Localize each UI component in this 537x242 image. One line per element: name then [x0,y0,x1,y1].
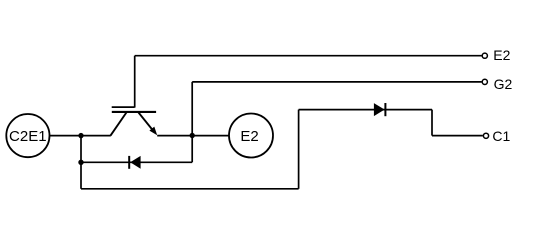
wire: bottom horizontal wire [81,188,299,190]
diode D2 (anti-parallel, pointing left): triangle [130,156,140,169]
svg-text:E2: E2 [493,47,510,63]
label E2 (pin) [493,47,510,63]
node C junction dot (diode D2 anode-side tap) [78,160,83,165]
diode D1 cathode bar [384,103,386,116]
svg-text:C1: C1 [492,128,510,144]
label G2 (pin) [494,76,513,92]
terminal E2 pin circle [482,53,487,58]
label C1 (pin) [492,128,510,144]
wire: diode D2 horizontal wire [81,161,192,163]
wire: main horizontal wire from C2E1 circle to IGBT collector foot [49,135,110,137]
terminal C1 pin circle [483,133,488,138]
wire: main horizontal wire from IGBT emitter arrow to E2 circle [157,135,229,137]
transistor Q2 (IGBT): emitter arrowhead [149,127,157,136]
diode D1 (pointing right): triangle [374,103,385,116]
svg-text:E2: E2 [240,128,258,145]
wire: diode D1 horizontal wire [299,109,432,111]
label E2 (power terminal) [240,128,258,145]
terminal G2 pin circle [482,79,487,84]
transistor Q2 (IGBT): main body bar [112,111,156,113]
wire: G2 horizontal wire from vertical riser to terminal G2 [192,81,481,83]
transistor Q2 (IGBT): gate bar [112,106,135,108]
label C2E1 [9,128,47,145]
transistor Q2 (IGBT): collector diagonal [111,113,127,136]
node B junction dot (emitter node) [190,133,195,138]
terminal C2E1 circle [6,114,49,157]
wire: top horizontal wire to terminal E2 [135,55,482,57]
wire: gate lead from top wire down to gate bar [134,56,136,108]
node A junction dot [78,133,83,138]
svg-text:C2E1: C2E1 [9,128,47,145]
transistor Q2 (IGBT): emitter diagonal [139,113,154,132]
terminal E2 (power) circle [229,114,273,158]
wire: vertical drop x=432 from D1 wire down to C1 level [431,110,433,136]
svg-text:G2: G2 [494,76,513,92]
wire: vertical riser x=298.6 from bottom wire up to diode D1 wire [298,110,300,189]
wire: horizontal wire to terminal C1 [432,135,483,137]
wire: vertical from node A down through node C to bottom wire [80,136,82,189]
wire: vertical riser x=192 from G2 wire through emitter node down to diode D2 wire [191,82,193,162]
diode D2 cathode bar [128,156,130,169]
